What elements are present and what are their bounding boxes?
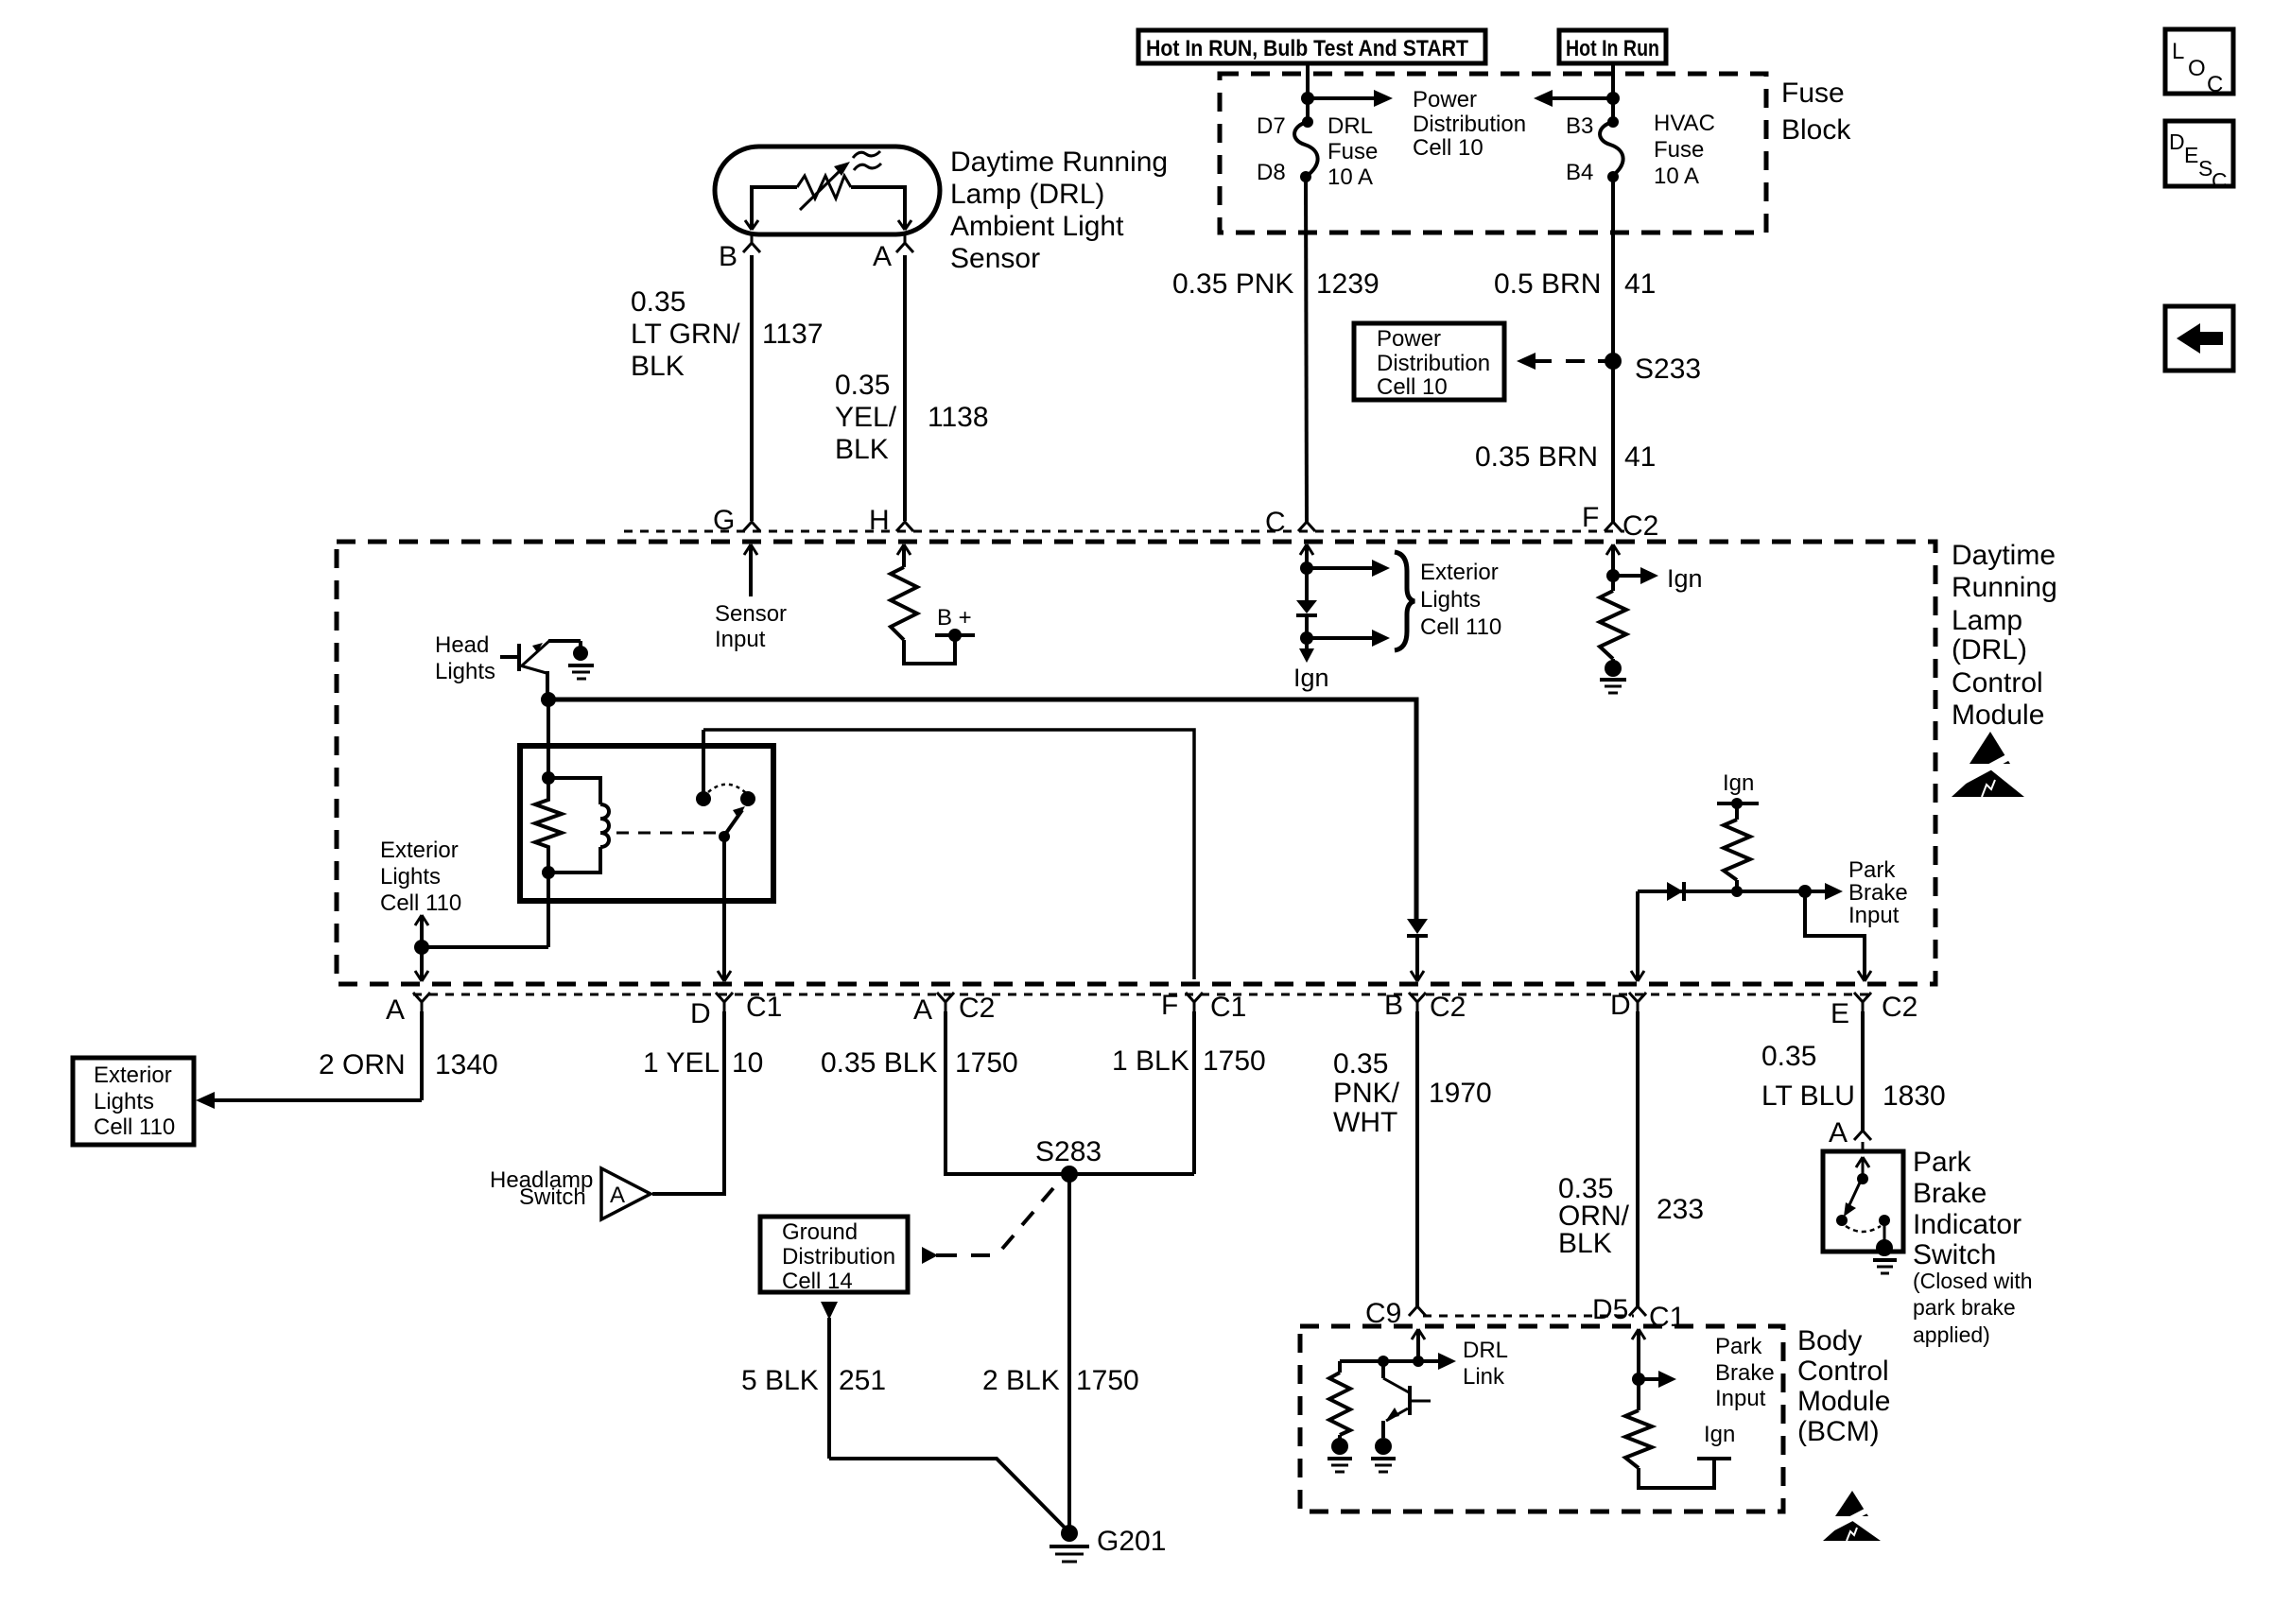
label: 5 BLK 251 <box>741 1365 886 1396</box>
label: 0.35 PNK/ WHT 1970 <box>1333 1048 1492 1138</box>
park brake horizontal rail <box>1638 890 1805 893</box>
svg-text:Control: Control <box>1797 1356 1889 1387</box>
headlights switch symbol <box>500 641 581 673</box>
svg-text:D: D <box>690 998 711 1029</box>
svg-text:0.35: 0.35 <box>1333 1048 1388 1080</box>
svg-text:Hot In RUN, Bulb Test And STAR: Hot In RUN, Bulb Test And START <box>1146 36 1468 61</box>
arrow to Exterior Lights (lower) <box>1307 630 1390 647</box>
svg-text:0.35: 0.35 <box>631 286 685 318</box>
wire from resistor to B+ node <box>904 635 955 664</box>
relay resistor <box>535 778 562 872</box>
arrow down to connector A <box>415 947 428 981</box>
svg-text:1970: 1970 <box>1429 1078 1492 1109</box>
svg-text:1750: 1750 <box>1076 1365 1139 1396</box>
svg-text:Lights: Lights <box>94 1089 154 1114</box>
ground G-B1 <box>1327 1438 1352 1472</box>
svg-text:C: C <box>2207 72 2223 97</box>
svg-text:Exterior: Exterior <box>380 838 459 863</box>
dashed arrow from S233 to Power Distribution box <box>1517 353 1605 370</box>
label: Daytime Running Lamp (DRL) Ambient Light Sensor <box>950 147 1168 274</box>
junction node F-1 <box>1606 569 1620 582</box>
svg-text:C2: C2 <box>959 993 995 1024</box>
splice S283 <box>1035 1136 1102 1183</box>
arrow to Power Distribution Cell 10 (right, pointing left) <box>1534 90 1613 107</box>
svg-text:Ign: Ign <box>1293 664 1329 692</box>
svg-text:Head: Head <box>435 632 489 658</box>
relay coil <box>548 778 609 872</box>
label: Head Lights <box>435 632 495 684</box>
resistor R-PB (park brake pull-up) <box>1724 803 1750 891</box>
dashed arrow from Ground Distribution to S283 <box>922 1188 1053 1264</box>
arrow down from Ground Distribution box <box>821 1302 838 1459</box>
resistor R-B1 (BCM left) <box>1329 1361 1350 1439</box>
wire 251 to G201 <box>829 1459 1067 1529</box>
svg-text:DRL: DRL <box>1327 113 1373 139</box>
svg-text:Exterior: Exterior <box>1420 560 1499 585</box>
svg-text:(BCM): (BCM) <box>1797 1416 1880 1447</box>
wire 41: HVAC fuse to connector F C2 <box>1611 177 1615 522</box>
svg-text:Switch: Switch <box>519 1184 586 1210</box>
wire: relay blade to D C1 <box>718 837 731 981</box>
svg-text:Body: Body <box>1797 1325 1862 1356</box>
svg-text:Running: Running <box>1952 572 2057 603</box>
svg-text:Exterior: Exterior <box>94 1063 172 1088</box>
svg-text:E: E <box>1831 998 1849 1029</box>
svg-text:0.35: 0.35 <box>1761 1041 1816 1072</box>
junction node BCM-1 <box>1413 1356 1424 1367</box>
svg-text:Distribution: Distribution <box>782 1244 895 1270</box>
svg-text:L: L <box>2172 39 2184 64</box>
ground G-B2 <box>1371 1438 1396 1472</box>
svg-text:Switch: Switch <box>1913 1239 1996 1270</box>
svg-text:Input: Input <box>1848 903 1900 928</box>
label: Body Control Module (BCM) <box>1797 1325 1890 1447</box>
connector pin D <box>1610 990 1646 1021</box>
park brake switch internals <box>1836 1157 1890 1245</box>
connector pin B of C2 <box>1384 990 1466 1023</box>
svg-text:1138: 1138 <box>928 402 989 433</box>
label: Headlamp Switch <box>490 1167 593 1210</box>
svg-text:C2: C2 <box>1430 992 1466 1023</box>
svg-text:D7: D7 <box>1257 113 1286 139</box>
svg-text:(DRL): (DRL) <box>1952 634 2027 665</box>
svg-text:Cell 110: Cell 110 <box>380 890 461 916</box>
svg-text:Lights: Lights <box>1420 587 1481 613</box>
box: Exterior Lights Cell 110 <box>73 1058 194 1145</box>
photoresistor element <box>797 176 851 199</box>
arrow to DRL Link label <box>1418 1353 1456 1370</box>
svg-text:1750: 1750 <box>1203 1045 1266 1077</box>
label: 2 BLK 1750 <box>982 1365 1139 1396</box>
wire: relay fixed contact to F C1 <box>703 730 1194 979</box>
label: 0.5 BRN 41 <box>1494 268 1656 300</box>
svg-text:5 BLK: 5 BLK <box>741 1365 819 1396</box>
label: 0.35 YEL/ BLK 1138 <box>835 370 989 465</box>
label: 0.35 LT GRN/ BLK 1137 <box>631 286 824 382</box>
svg-text:0.35 BLK: 0.35 BLK <box>821 1047 937 1079</box>
svg-text:Cell 10: Cell 10 <box>1377 374 1448 400</box>
svg-text:Ign: Ign <box>1667 564 1703 593</box>
svg-text:Link: Link <box>1463 1364 1505 1390</box>
D5 arrow up inside BCM <box>1632 1329 1645 1379</box>
arrow to Exterior Lights (upper) <box>1307 560 1390 577</box>
junction node above DRL fuse <box>1301 92 1314 105</box>
svg-text:D8: D8 <box>1257 160 1286 185</box>
sensor pin B connector <box>719 234 760 272</box>
svg-text:2 BLK: 2 BLK <box>982 1365 1060 1396</box>
svg-text:C: C <box>2212 168 2228 193</box>
svg-text:S283: S283 <box>1035 1136 1102 1167</box>
label: 2 ORN 1340 <box>319 1049 498 1080</box>
fuse F1 DRL Fuse 10 A <box>1294 116 1318 182</box>
BCM dashed box <box>1300 1326 1783 1512</box>
C9 arrow up inside BCM <box>1412 1329 1425 1361</box>
svg-text:C: C <box>1265 507 1286 538</box>
wire 1970: B C2 to BCM C9 <box>1415 1011 1419 1308</box>
svg-text:Fuse: Fuse <box>1654 137 1704 163</box>
wire from Hot In RUN box to DRL fuse <box>1306 63 1310 122</box>
arrow to Park Brake Input label (module) <box>1805 883 1843 900</box>
svg-text:Brake: Brake <box>1848 880 1908 906</box>
wire 1750: S283 down to G201 <box>1067 1174 1071 1527</box>
DRL ambient light sensor body (stadium) <box>715 147 940 234</box>
svg-text:1 BLK: 1 BLK <box>1112 1045 1189 1077</box>
wire to Ign terminal (BCM) <box>1639 1460 1714 1488</box>
svg-text:10 A: 10 A <box>1327 164 1373 190</box>
svg-text:1137: 1137 <box>762 319 824 350</box>
svg-text:41: 41 <box>1624 268 1656 300</box>
header box: Hot In Run <box>1559 30 1666 63</box>
svg-text:0.35: 0.35 <box>835 370 890 401</box>
label: 0.35 PNK 1239 <box>1172 268 1379 300</box>
svg-text:Cell 110: Cell 110 <box>1420 614 1501 640</box>
DESC icon box <box>2165 121 2233 193</box>
box: Power Distribution Cell 10 <box>1354 323 1504 400</box>
svg-text:Brake: Brake <box>1715 1360 1775 1386</box>
label: DRL Link <box>1463 1338 1508 1390</box>
svg-text:C2: C2 <box>1622 510 1658 542</box>
resistor at H input <box>891 544 917 640</box>
svg-text:Ign: Ign <box>1723 770 1754 796</box>
svg-text:A: A <box>1829 1117 1848 1149</box>
svg-text:Lights: Lights <box>435 659 495 684</box>
svg-text:LT BLU: LT BLU <box>1761 1080 1855 1112</box>
svg-text:0.35 PNK: 0.35 PNK <box>1172 268 1293 300</box>
svg-text:Cell 10: Cell 10 <box>1413 135 1484 161</box>
arrow down to connector B C2 <box>1411 936 1424 981</box>
svg-text:Input: Input <box>715 627 766 652</box>
svg-text:F: F <box>1582 502 1599 533</box>
svg-text:BLK: BLK <box>1558 1228 1612 1259</box>
svg-text:G201: G201 <box>1097 1526 1166 1557</box>
label: Power Distribution Cell 10 (fuse block) <box>1413 87 1526 161</box>
label: Exterior Lights Cell 110 (module right of C) <box>1420 560 1501 640</box>
svg-text:Daytime: Daytime <box>1952 540 2056 571</box>
svg-text:F: F <box>1161 990 1178 1021</box>
svg-text:Input: Input <box>1715 1386 1766 1411</box>
ground G-F (F section) <box>1600 659 1626 693</box>
label: (Closed with park brake applied) <box>1913 1269 2033 1347</box>
diode D3 (park brake) <box>1667 882 1684 901</box>
label: Park Brake Input (module) <box>1848 857 1908 928</box>
relay fixed contact <box>696 730 711 806</box>
svg-text:A: A <box>873 241 892 272</box>
svg-text:S233: S233 <box>1635 354 1701 385</box>
junction node PB <box>1798 885 1812 898</box>
relay actuation dashed link <box>616 832 717 835</box>
svg-text:Indicator: Indicator <box>1913 1209 2021 1240</box>
svg-text:Module: Module <box>1797 1386 1890 1417</box>
splice S233 <box>1605 353 1701 385</box>
svg-text:233: 233 <box>1657 1194 1704 1225</box>
junction node C-1 <box>1300 561 1313 575</box>
connector pin D of C1 <box>690 992 782 1029</box>
wire 1137: sensor B to module G <box>750 255 754 521</box>
svg-text:Distribution: Distribution <box>1377 351 1490 376</box>
label: HVAC Fuse 10 A <box>1654 111 1715 189</box>
sensor internal wire loop <box>752 187 905 230</box>
svg-text:H: H <box>869 505 890 536</box>
arrow to Park Brake Input label (BCM) <box>1639 1371 1676 1388</box>
C input arrow into module <box>1300 544 1313 600</box>
svg-text:B +: B + <box>937 605 972 631</box>
svg-text:LT GRN/: LT GRN/ <box>631 319 740 350</box>
wire 10: D C1 to headlamp switch <box>652 1011 724 1194</box>
svg-text:Cell 110: Cell 110 <box>94 1114 175 1140</box>
svg-text:Fuse: Fuse <box>1781 78 1845 109</box>
connector pin A <box>386 993 430 1026</box>
sensor pin A connector <box>873 234 913 272</box>
svg-text:Lamp (DRL): Lamp (DRL) <box>950 179 1104 210</box>
wire from PB node down to connector E <box>1805 891 1871 981</box>
svg-text:Lights: Lights <box>380 864 441 890</box>
svg-text:B: B <box>1384 990 1403 1021</box>
svg-text:10 A: 10 A <box>1654 164 1699 189</box>
connector pin G <box>713 505 760 536</box>
label: 0.35 BLK 1750 <box>821 1047 1018 1079</box>
Ign terminal (BCM) <box>1697 1422 1735 1459</box>
svg-text:Brake: Brake <box>1913 1178 1987 1209</box>
module bottom connector row (fine dashed) <box>413 993 1872 996</box>
label: 0.35 ORN/ BLK 233 <box>1558 1173 1704 1259</box>
svg-text:251: 251 <box>839 1365 886 1396</box>
svg-text:Sensor: Sensor <box>715 601 787 627</box>
header box: Hot In RUN, Bulb Test And START <box>1138 30 1485 63</box>
svg-text:Hot In Run: Hot In Run <box>1566 36 1659 61</box>
sensor pin arrows (down) <box>745 220 911 230</box>
variable arrow through photoresistor <box>800 162 850 210</box>
connector pin D5 of C1 <box>1592 1294 1685 1333</box>
svg-text:BLK: BLK <box>631 351 685 382</box>
wire 1340 to Exterior Lights box <box>196 1011 422 1109</box>
svg-text:A: A <box>913 994 932 1026</box>
junction node EXT <box>414 940 429 955</box>
ground at headlights switch <box>568 646 594 679</box>
junction node PB-R <box>1731 886 1743 897</box>
wire 1830: E C2 to park brake switch <box>1861 1011 1865 1131</box>
BCM connector row (fine dashed) <box>1423 1315 1634 1318</box>
connector pin F of C2 <box>1582 502 1658 542</box>
connector pin E of C2 <box>1831 992 1917 1029</box>
headlamp switch triangle with A <box>601 1168 651 1219</box>
wire: relay coil bottom out of box <box>547 872 550 947</box>
wire from rail down to connector D <box>1631 891 1644 981</box>
arrow to Ign (F section) <box>1613 564 1703 593</box>
wire from junction into relay coil <box>547 700 550 778</box>
wire 1750 from A C2 <box>946 1011 1194 1174</box>
svg-text:DRL: DRL <box>1463 1338 1508 1363</box>
svg-text:2 ORN: 2 ORN <box>319 1049 406 1080</box>
wire from Hot In Run box to HVAC fuse <box>1611 63 1615 122</box>
svg-text:Distribution: Distribution <box>1413 112 1526 137</box>
svg-text:Park: Park <box>1913 1147 1972 1178</box>
connector pin C9 <box>1365 1298 1426 1329</box>
svg-text:1830: 1830 <box>1883 1080 1946 1112</box>
svg-text:0.5 BRN: 0.5 BRN <box>1494 268 1601 300</box>
svg-text:(Closed with: (Closed with <box>1913 1269 2033 1293</box>
module top connector row (fine dashed) <box>624 530 1624 533</box>
back arrow icon box <box>2165 306 2233 371</box>
svg-text:WHT: WHT <box>1333 1107 1397 1138</box>
svg-text:1340: 1340 <box>435 1049 498 1080</box>
connector pin C <box>1265 507 1315 538</box>
wire from junction to relay coil branch <box>422 945 548 949</box>
svg-text:Control: Control <box>1952 667 2043 699</box>
svg-text:Park: Park <box>1715 1334 1762 1359</box>
svg-text:B: B <box>719 241 737 272</box>
label: Park Brake Indicator Switch <box>1913 1147 2021 1270</box>
relay contact dashed arc <box>708 785 746 793</box>
LOC icon box <box>2165 29 2233 97</box>
svg-text:41: 41 <box>1624 441 1656 473</box>
svg-text:Ambient Light: Ambient Light <box>950 211 1124 242</box>
svg-text:Sensor: Sensor <box>950 243 1040 274</box>
fuse F2 HVAC Fuse 10 A <box>1600 116 1623 182</box>
label: Park Brake Input (BCM) <box>1715 1334 1775 1411</box>
svg-text:B4: B4 <box>1566 160 1593 185</box>
label: 0.35 LT BLU 1830 <box>1761 1041 1946 1112</box>
brace for Exterior Lights Cell 110 <box>1395 552 1414 650</box>
connector pin A of C2 <box>913 993 995 1026</box>
arrow up to Exterior Lights label <box>415 915 428 947</box>
transistor Q1 (BCM) <box>1383 1361 1431 1438</box>
wire 1239: DRL fuse to connector C <box>1306 177 1307 522</box>
svg-text:YEL/: YEL/ <box>835 402 897 433</box>
svg-text:applied): applied) <box>1913 1322 1990 1347</box>
relay coil bottom node <box>542 866 555 879</box>
label: Daytime Running Lamp (DRL) Control Module <box>1952 540 2057 731</box>
svg-text:C2: C2 <box>1882 992 1917 1023</box>
svg-text:G: G <box>713 505 735 536</box>
svg-text:Block: Block <box>1781 114 1851 146</box>
svg-text:Power: Power <box>1413 87 1477 112</box>
svg-text:Park: Park <box>1848 857 1896 883</box>
connector pin A (park brake switch) <box>1829 1117 1871 1151</box>
wire: headlight rail to B C2 diode <box>548 700 1416 919</box>
fuse block dashed box <box>1220 74 1766 233</box>
junction node C-2 <box>1300 631 1313 645</box>
svg-text:park brake: park brake <box>1913 1295 2016 1320</box>
svg-text:A: A <box>386 994 405 1026</box>
svg-text:Fuse: Fuse <box>1327 139 1378 164</box>
svg-text:C1: C1 <box>746 992 782 1023</box>
junction node BCM-3 <box>1632 1373 1645 1386</box>
ESD sensitive symbol (module) <box>1952 732 2024 797</box>
ground below park brake switch <box>1873 1239 1897 1273</box>
relay coil top node <box>542 771 555 785</box>
svg-text:B3: B3 <box>1566 113 1593 139</box>
label: Fuse Block <box>1781 78 1851 146</box>
diode D1 (C section) <box>1296 600 1317 649</box>
park brake indicator switch box <box>1823 1151 1903 1252</box>
svg-text:BLK: BLK <box>835 434 889 465</box>
arrow to Power Distribution Cell 10 (left) <box>1308 90 1393 107</box>
label: 1 BLK 1750 <box>1112 1045 1266 1077</box>
box: Ground Distribution Cell 14 <box>760 1217 908 1294</box>
svg-text:1 YEL: 1 YEL <box>643 1047 720 1079</box>
svg-text:Daytime Running: Daytime Running <box>950 147 1168 178</box>
svg-text:Power: Power <box>1377 326 1441 352</box>
svg-text:HVAC: HVAC <box>1654 111 1715 136</box>
svg-text:1750: 1750 <box>955 1047 1018 1079</box>
connector pin H <box>869 505 913 536</box>
relay moving contact <box>740 791 755 806</box>
label: 0.35 BRN 41 <box>1475 441 1656 473</box>
relay K1 box <box>520 746 773 901</box>
svg-text:Module: Module <box>1952 700 2044 731</box>
resistor R-F (F section) <box>1600 591 1626 659</box>
ground G201 <box>1050 1525 1166 1562</box>
svg-text:A: A <box>610 1183 625 1208</box>
svg-text:0.35 BRN: 0.35 BRN <box>1475 441 1598 473</box>
BCM DRL link rail <box>1340 1359 1418 1363</box>
relay switch blade <box>719 806 745 842</box>
connector pin F of C1 <box>1161 990 1246 1023</box>
svg-text:PNK/: PNK/ <box>1333 1078 1400 1109</box>
wire 1750 from F C1 <box>1192 1011 1196 1174</box>
wire 1138: sensor A to module H <box>903 255 907 521</box>
diode D2 above B C2 <box>1407 919 1428 936</box>
junction node BCM-2 <box>1378 1356 1389 1367</box>
svg-text:C1: C1 <box>1210 992 1246 1023</box>
svg-text:Ground: Ground <box>782 1219 858 1245</box>
svg-text:E: E <box>2184 143 2198 167</box>
arrow down to Ign (C section) <box>1299 648 1314 663</box>
light squiggles <box>853 151 881 170</box>
svg-text:D: D <box>2169 130 2185 154</box>
label: Sensor Input <box>715 601 787 652</box>
sensor input arrow (G) <box>744 544 757 596</box>
svg-text:Cell 14: Cell 14 <box>782 1269 853 1294</box>
svg-text:O: O <box>2188 56 2206 81</box>
wire 233: D to BCM D5 <box>1636 1011 1640 1308</box>
svg-text:Lamp: Lamp <box>1952 605 2022 636</box>
label: 1 YEL 10 <box>643 1047 763 1079</box>
F C2 input arrow into module <box>1606 544 1620 591</box>
DRL control module dashed box <box>337 542 1935 984</box>
svg-text:10: 10 <box>732 1047 763 1079</box>
junction node HL <box>541 692 556 707</box>
junction node above HVAC fuse <box>1606 92 1620 105</box>
wire from switch to headlight rail <box>546 671 549 700</box>
ESD sensitive symbol (BCM) <box>1823 1491 1881 1541</box>
svg-text:D: D <box>1610 990 1631 1021</box>
label: Exterior Lights Cell 110 (module left) <box>380 838 461 916</box>
svg-text:Ign: Ign <box>1704 1422 1735 1447</box>
svg-text:D5: D5 <box>1592 1294 1628 1325</box>
svg-text:1239: 1239 <box>1316 268 1379 300</box>
resistor R-B2 (BCM right) <box>1625 1379 1652 1468</box>
